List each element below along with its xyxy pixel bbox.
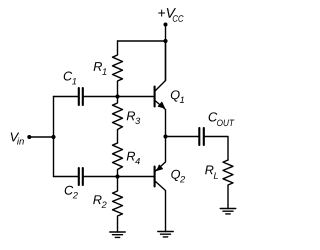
wire upper base right segment to Q1 base [84,96,155,98]
capacitor C2 [79,168,83,185]
label R1 [94,62,107,75]
resistor R3 [113,97,123,144]
label COUT [209,112,235,126]
label RL [205,166,218,179]
wire Vin to bus [29,136,53,138]
label Q2 [171,170,185,183]
resistor R1 [113,41,123,97]
wire COUT to RL [205,137,228,161]
wire input bus vertical [53,97,55,177]
label Vin [11,132,24,144]
label R2 [93,195,106,208]
resistor RL [223,160,233,209]
wire lower base left segment [54,176,78,178]
wire output node to COUT [166,136,199,138]
label R3 [127,111,140,124]
label C1 [64,72,76,85]
wire top from R1 to VCC stem [118,40,166,42]
ground R2 [110,232,125,237]
transistor Q2 [155,137,166,232]
ground Q2 collector [158,232,173,237]
junction output node emitters/COUT [163,134,167,138]
wire upper base left segment [54,96,78,98]
label +VCC [158,8,183,22]
junction R1/R3/C1 wire [115,94,119,98]
junction VCC/R1/Q1 collector [163,39,167,43]
capacitor C1 [79,88,83,105]
ground RL [220,209,235,214]
transistor Q1 [155,41,166,137]
label R4 [127,152,140,165]
capacitor COUT [199,128,204,145]
wire lower base right segment to Q2 base [84,176,155,178]
junction R4/R2/C2 wire [115,174,119,178]
label Q1 [171,90,184,103]
resistor R2 [113,177,123,233]
wire VCC stem [165,25,167,81]
node Vin terminal dot [27,135,31,139]
label C2 [65,186,78,199]
junction Vin bus [51,135,55,139]
resistor R4 [113,143,123,177]
node +VCC terminal dot [164,23,168,27]
